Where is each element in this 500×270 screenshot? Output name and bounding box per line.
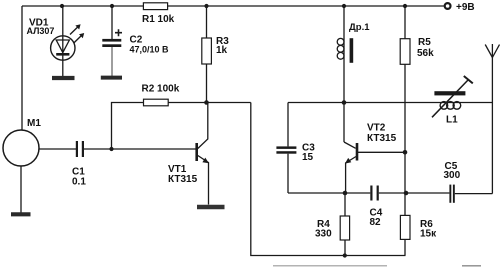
ground VD1 bbox=[52, 76, 75, 80]
inductor Dr.1 core bar bbox=[350, 38, 354, 63]
node junction R5 on rail bbox=[403, 4, 407, 8]
transistor VT2 emitter arrow bbox=[345, 158, 351, 164]
diode VD1 emission arrow 2 bbox=[74, 35, 83, 43]
svg-text:Др.1: Др.1 bbox=[349, 22, 370, 33]
node junction R2/R3/collector bbox=[204, 100, 209, 105]
capacitor C1 bbox=[76, 141, 84, 157]
transistor VT2 base wire bbox=[358, 151, 405, 153]
wire tank line bbox=[288, 102, 492, 104]
transistor VT1 base bar bbox=[195, 143, 198, 161]
inductor Dr.1 wire bbox=[343, 6, 345, 142]
svg-text:VT2: VT2 bbox=[367, 123, 386, 134]
inductor L1 core bar bbox=[434, 91, 465, 95]
resistor R1 bbox=[143, 3, 167, 10]
wire right drop to bottom rail bbox=[251, 103, 406, 256]
transistor VT2 emitter bbox=[346, 157, 356, 194]
transistor VT1 emitter bbox=[198, 156, 209, 205]
transistor VT2 base bar bbox=[356, 143, 359, 161]
node junction base/R5/R6 bbox=[403, 150, 408, 155]
inductor Dr.1 coil loops bbox=[337, 38, 344, 45]
wire antenna vertical bbox=[491, 44, 493, 194]
ground C2 bbox=[101, 76, 122, 80]
transistor VT2 collector bbox=[344, 142, 356, 148]
transistor VT1 collector bbox=[198, 103, 208, 149]
capacitor C2 plus sign bbox=[115, 29, 122, 36]
inductor L1 loops bbox=[440, 102, 448, 110]
svg-text:300: 300 bbox=[444, 170, 461, 181]
node junction R6/C4/C5 bbox=[404, 191, 409, 196]
wire lower line left bbox=[288, 192, 370, 194]
capacitor C3 plates bbox=[276, 146, 296, 153]
svg-text:1k: 1k bbox=[216, 45, 228, 56]
node junction Dr1/tank line bbox=[342, 100, 347, 105]
wire R6 top lead bbox=[404, 193, 406, 215]
wire C3 to lower line bbox=[287, 154, 289, 193]
microphone M1 bbox=[3, 130, 39, 166]
wire R5 bottom lead to base node bbox=[404, 64, 406, 152]
diode VD1 triangle bbox=[56, 40, 69, 53]
node junction C2 on rail bbox=[110, 4, 114, 8]
wire R3 bottom lead bbox=[206, 64, 208, 103]
antenna arms bbox=[485, 45, 499, 58]
svg-text:0.1: 0.1 bbox=[72, 177, 86, 188]
node junction R4 on bottom rail bbox=[343, 253, 347, 257]
wire microphone output bbox=[39, 148, 76, 150]
wire R3 top lead bbox=[206, 6, 208, 38]
wire R2 branch up bbox=[112, 103, 144, 150]
svg-text:АЛ307: АЛ307 bbox=[27, 26, 55, 36]
wire R6 bottom lead bbox=[404, 239, 406, 255]
svg-text:82: 82 bbox=[370, 217, 382, 228]
svg-text:330: 330 bbox=[315, 229, 332, 240]
resistor R4 bbox=[340, 216, 349, 240]
svg-text:15: 15 bbox=[302, 152, 314, 163]
transistor VT1 emitter arrow bbox=[202, 158, 209, 164]
scan artifact bottom lines bbox=[273, 265, 387, 267]
wire base node down to R6 bbox=[404, 152, 406, 193]
wire R4 top lead bbox=[344, 193, 346, 216]
resistor R3 bbox=[202, 38, 212, 64]
capacitor C4 plates bbox=[370, 186, 379, 201]
svg-text:56k: 56k bbox=[417, 48, 434, 59]
wire VD1 branch bbox=[62, 6, 64, 77]
wire C2 lower lead bbox=[111, 47, 113, 76]
resistor R5 bbox=[400, 39, 410, 65]
resistor R6 bbox=[400, 215, 410, 239]
wire R5 top lead bbox=[404, 6, 406, 39]
svg-text:КТ315: КТ315 bbox=[168, 174, 198, 185]
wire R4 bottom lead bbox=[344, 240, 346, 256]
node junction C1/R2 bbox=[109, 147, 113, 151]
node junction R3 on rail bbox=[204, 4, 208, 8]
node junction VD1 on rail bbox=[60, 4, 64, 8]
svg-text:15к: 15к bbox=[420, 229, 437, 240]
svg-text:R1 10k: R1 10k bbox=[142, 14, 175, 25]
wire C2 branch bbox=[111, 6, 113, 39]
wire left drop to microphone bbox=[21, 6, 23, 130]
wire top supply rail bbox=[22, 5, 444, 7]
svg-text:L1: L1 bbox=[446, 115, 458, 126]
capacitor C5 plates bbox=[449, 185, 454, 203]
svg-text:R2 100k: R2 100k bbox=[142, 84, 180, 95]
diode VD1 LED circle bbox=[51, 36, 75, 60]
resistor R2 bbox=[144, 99, 169, 106]
capacitor C2 plates bbox=[102, 39, 121, 47]
inductor L1 tuning arrow bbox=[432, 80, 469, 118]
wire C3 branch down bbox=[287, 103, 289, 147]
svg-text:R5: R5 bbox=[418, 37, 431, 48]
diode VD1 emission arrow 1 bbox=[70, 26, 79, 34]
svg-text:КТ315: КТ315 bbox=[367, 133, 397, 144]
ground M1 bbox=[20, 166, 22, 213]
wire C1 to VT1 base bbox=[84, 148, 196, 150]
diode VD1 cathode bar bbox=[56, 53, 69, 56]
svg-text:M1: M1 bbox=[27, 118, 41, 129]
wire lower line right bbox=[455, 193, 493, 195]
svg-text:+9В: +9В bbox=[456, 2, 475, 13]
wire lower line middle bbox=[379, 192, 450, 194]
terminal +9V bbox=[445, 3, 451, 9]
ground VT1 bbox=[197, 205, 225, 210]
node junction Dr1 on rail bbox=[342, 4, 346, 8]
node junction emitter/R4/C4 line bbox=[343, 191, 348, 196]
svg-text:47,0/10 В: 47,0/10 В bbox=[130, 45, 170, 55]
wire R2 to node bbox=[168, 102, 251, 104]
